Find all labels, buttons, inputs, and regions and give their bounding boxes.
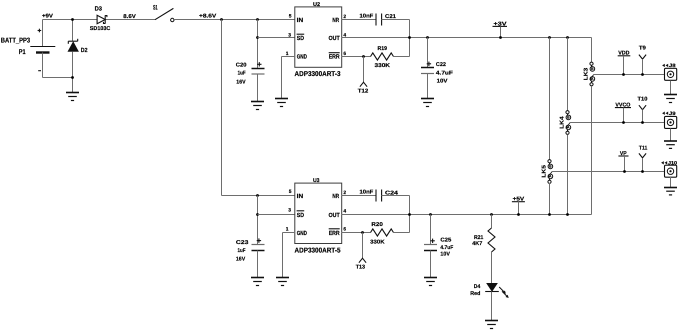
wire R19 to feedback node <box>394 56 410 58</box>
svg-text:16V: 16V <box>236 79 246 85</box>
junction feedback/OUT bottom <box>408 213 411 216</box>
wire U2 ERR <box>342 56 371 58</box>
svg-text:D2: D2 <box>81 47 88 54</box>
svg-text:3: 3 <box>288 208 291 214</box>
test point T13 <box>356 233 366 271</box>
svg-text:C25: C25 <box>440 237 451 243</box>
wire LK3 tap to J8 <box>594 74 665 76</box>
svg-text:IN: IN <box>297 193 304 200</box>
svg-text:U2: U2 <box>313 2 320 8</box>
capacitor C21 10nF <box>360 14 397 26</box>
wire U3 ERR <box>342 232 371 234</box>
svg-text:4K7: 4K7 <box>472 241 482 247</box>
switch S1 <box>153 4 174 21</box>
svg-text:T12: T12 <box>358 89 369 95</box>
junction battery/D2 bottom <box>71 76 74 79</box>
node VDD <box>618 51 631 76</box>
wire C20 column <box>257 20 259 69</box>
svg-text:T9: T9 <box>639 45 646 51</box>
svg-text:ERR: ERR <box>329 54 341 61</box>
svg-text:OUT: OUT <box>329 212 340 219</box>
junction SD/C20 column top <box>256 18 259 21</box>
diode D3 SD103C <box>90 5 111 32</box>
svg-text:NR: NR <box>332 17 339 24</box>
inductor link LK5 <box>541 160 552 184</box>
svg-text:NR: NR <box>332 193 339 200</box>
svg-text:LK3: LK3 <box>583 68 589 81</box>
junction ERR/T13 <box>361 231 364 234</box>
wire U2 OUT rail +3V <box>342 37 592 39</box>
wire battery top to D3 <box>43 19 98 21</box>
node +5V <box>512 197 525 216</box>
ground (U2 GND) <box>275 99 288 107</box>
svg-text:R21: R21 <box>474 235 483 241</box>
wire LK5 bottom down to +5V rail <box>549 183 551 214</box>
wire D3 to switch <box>105 19 155 21</box>
svg-text:R19: R19 <box>378 46 388 52</box>
svg-text:+9V: +9V <box>42 14 53 20</box>
svg-text:10V: 10V <box>437 79 448 85</box>
node VVCO <box>615 103 631 124</box>
junction LK4 column top <box>566 36 569 39</box>
svg-text:D4: D4 <box>474 284 481 290</box>
junction feedback/OUT <box>408 36 411 39</box>
svg-text:ERR: ERR <box>329 230 341 237</box>
junction U2 SD <box>256 36 259 39</box>
svg-text:T10: T10 <box>638 96 648 102</box>
svg-text:SD: SD <box>297 35 305 42</box>
connector J10 <box>661 160 677 187</box>
capacitor C23 1uF 16V <box>236 238 265 277</box>
svg-text:LK5: LK5 <box>541 165 547 178</box>
wire LK3 bottom down to +5V rail <box>591 86 593 215</box>
op-amp U3 ADP3300ART-5 regulator <box>295 178 342 254</box>
ground (C25) <box>424 278 437 286</box>
svg-text:+8.6V: +8.6V <box>199 14 217 20</box>
test point T12 <box>358 57 369 95</box>
svg-text:ADP3300ART-3: ADP3300ART-3 <box>295 71 341 78</box>
connector J9 <box>662 111 677 141</box>
svg-text:D3: D3 <box>95 5 103 12</box>
junction C25 <box>429 213 432 216</box>
ground (battery) <box>66 93 79 101</box>
junction C22 <box>426 36 429 39</box>
svg-text:ADP3300ART-5: ADP3300ART-5 <box>295 248 341 255</box>
junction LK5 column top <box>548 36 551 39</box>
junction ERR/T12 <box>362 55 365 58</box>
inductor link LK4 <box>559 111 570 135</box>
wire R20 to feedback node <box>394 232 410 234</box>
junction U3 SD <box>256 213 259 216</box>
capacitor C22 4.7uF 10V <box>421 38 454 99</box>
junction LK5 column bottom <box>548 213 551 216</box>
svg-text:4.7uF: 4.7uF <box>436 71 454 77</box>
resistor R21 4K7 <box>472 215 495 284</box>
svg-text:IN: IN <box>297 17 304 24</box>
ground (C22) <box>421 99 434 107</box>
test point T10 <box>638 96 648 124</box>
svg-text:4: 4 <box>343 209 346 215</box>
svg-text:GND: GND <box>297 230 308 237</box>
svg-text:1uF: 1uF <box>238 248 247 254</box>
ground (J10) <box>664 188 677 195</box>
LED D4 Red <box>470 283 508 320</box>
diode D2 <box>68 20 88 93</box>
ground (C20) <box>251 102 264 110</box>
wire U2 NR to C21 <box>342 19 376 21</box>
svg-text:BATT_PP3: BATT_PP3 <box>1 38 30 45</box>
svg-text:LK4: LK4 <box>559 115 565 129</box>
test point T9 <box>639 45 646 76</box>
svg-text:330K: 330K <box>375 63 391 69</box>
ground (J9) <box>664 141 677 148</box>
svg-text:GND: GND <box>297 54 308 61</box>
svg-text:C20: C20 <box>236 63 247 69</box>
wire LK4 tap to J9 <box>570 122 665 124</box>
svg-text:Red: Red <box>470 291 480 297</box>
resistor R19 330K <box>371 46 394 69</box>
wire +3V rail corner down into LK3 <box>591 38 593 63</box>
capacitor C25 4.7uF 10V <box>424 215 454 278</box>
wire down to U3 IN <box>222 20 295 196</box>
svg-text:10nF: 10nF <box>360 14 374 20</box>
svg-text:16V: 16V <box>236 257 246 263</box>
wire LK5 tap to J10 <box>552 171 665 173</box>
ground (C23) <box>251 278 264 286</box>
wire LK4 bottom down to +5V rail <box>567 134 569 214</box>
wire LK5 column top <box>549 38 551 160</box>
svg-text:5: 5 <box>289 14 292 20</box>
wire C23 column <box>257 196 259 245</box>
junction U3 IN / SD column <box>256 194 259 197</box>
svg-text:1uF: 1uF <box>238 71 247 77</box>
svg-text:S1: S1 <box>153 4 158 11</box>
wire C21 to feedback node <box>382 20 410 57</box>
svg-text:U3: U3 <box>313 178 320 184</box>
svg-text:1: 1 <box>286 226 289 232</box>
junction R21 <box>490 213 493 216</box>
ground (U3 GND) <box>276 278 289 286</box>
svg-text:T11: T11 <box>639 146 648 152</box>
svg-text:T13: T13 <box>356 264 365 270</box>
wire switch to U2 IN <box>174 19 295 21</box>
battery P1 BATT_PP3 <box>1 20 56 78</box>
resistor R20 330K <box>370 222 393 245</box>
svg-text:SD103C: SD103C <box>90 26 111 32</box>
wire U3 OUT rail +5V <box>342 214 592 216</box>
capacitor C20 1uF 16V <box>236 62 265 101</box>
op-amp U2 ADP3300ART-3 regulator <box>295 2 342 78</box>
svg-text:3: 3 <box>288 32 291 38</box>
svg-text:10nF: 10nF <box>360 190 374 196</box>
wire U3 SD <box>258 214 295 216</box>
wire U3 NR to C24 <box>342 195 376 197</box>
svg-text:SD: SD <box>297 212 305 219</box>
connector J8 <box>662 63 677 95</box>
inductor link LK3 <box>583 62 594 86</box>
svg-text:C23: C23 <box>236 240 249 246</box>
ground (J8) <box>664 95 677 103</box>
wire U2 SD <box>258 37 295 39</box>
test point T11 <box>639 146 648 173</box>
capacitor C24 10nF <box>360 190 400 202</box>
junction +8.6V rail <box>220 18 223 21</box>
svg-text:6: 6 <box>343 226 346 232</box>
svg-text:R20: R20 <box>371 222 382 228</box>
node VP <box>618 151 628 173</box>
wire battery bottom <box>43 77 73 79</box>
svg-text:OUT: OUT <box>329 35 340 42</box>
wire U3 GND pin <box>283 233 295 278</box>
svg-text:C22: C22 <box>436 62 446 68</box>
wire U2 GND pin <box>282 57 295 99</box>
svg-text:4.7uF: 4.7uF <box>440 245 453 251</box>
svg-text:P1: P1 <box>19 49 26 56</box>
junction LK4 column bottom <box>566 213 569 216</box>
svg-text:5: 5 <box>289 189 292 195</box>
svg-text:10V: 10V <box>440 252 450 258</box>
wire LK4 column top <box>567 38 569 111</box>
ground (D4) <box>485 321 498 329</box>
svg-text:8.6V: 8.6V <box>123 14 136 20</box>
node +3V <box>493 21 508 39</box>
wire C24 to feedback node <box>382 196 410 233</box>
junction battery/D2 top <box>71 18 74 21</box>
svg-text:330K: 330K <box>370 239 384 245</box>
